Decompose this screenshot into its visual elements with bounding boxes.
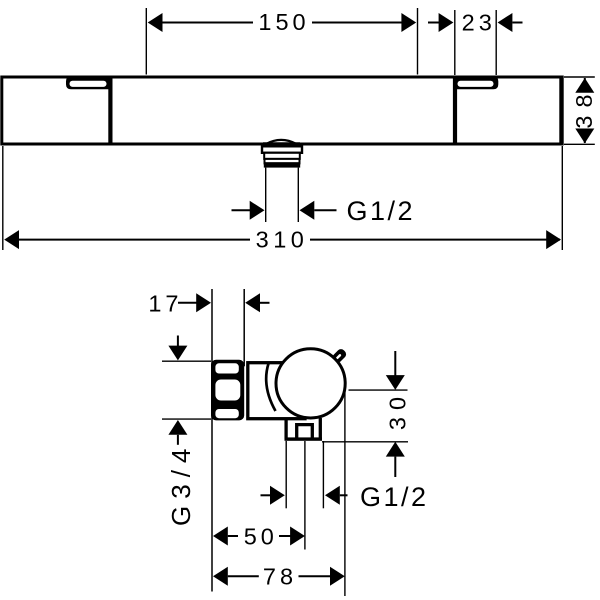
svg-text:38: 38 <box>571 86 597 128</box>
svg-text:23: 23 <box>462 10 496 36</box>
circle right extension line <box>344 391 346 597</box>
left divider line <box>108 77 112 144</box>
dimension G1/2 (side view) left arrow <box>261 486 285 505</box>
left mounting notch <box>66 76 113 89</box>
dimension 30 <box>385 351 411 477</box>
dimension 50 <box>213 524 305 550</box>
right mounting notch <box>454 76 499 89</box>
outlet fitting G1/2 under bar <box>262 146 302 167</box>
dimension 150 extension line left <box>145 8 147 75</box>
svg-text:17: 17 <box>148 291 182 317</box>
dimension 38 extension line bottom <box>564 143 595 145</box>
dimension 150 extension line right <box>417 8 419 75</box>
dimension 30 extension line bottom <box>322 441 408 443</box>
outlet right extension line <box>297 168 299 222</box>
fitting center extension line <box>304 441 306 550</box>
svg-text:310: 310 <box>256 227 309 253</box>
hose fitting G1/2 below body <box>285 418 323 441</box>
fitting right extension line <box>322 441 324 508</box>
dimension G1/2 (side view) right arrow <box>325 486 348 505</box>
bar bottom edge over dome <box>263 142 300 145</box>
svg-text:30: 30 <box>385 390 411 430</box>
dimension 23 extension line left <box>454 10 456 75</box>
dimension 23 <box>428 10 523 36</box>
dimension G3/4 extension line bottom <box>162 418 211 420</box>
dimension 30 extension line top <box>349 389 408 391</box>
svg-text:78: 78 <box>263 564 297 590</box>
thermostat handle circle <box>276 349 345 418</box>
outlet left extension line <box>265 168 267 222</box>
dimension 150 <box>148 9 417 35</box>
hex union nut G3/4 <box>211 360 244 421</box>
svg-text:G1/2: G1/2 <box>347 196 416 226</box>
svg-text:G3/4: G3/4 <box>166 442 196 526</box>
valve body <box>248 363 305 419</box>
dimension 310 extension line left <box>2 146 4 250</box>
fitting left extension line <box>285 441 287 508</box>
dimension 38 <box>571 78 597 143</box>
dimension 17 <box>148 291 269 317</box>
dimension G1/2 (top view) left arrow <box>232 201 265 220</box>
dimension 78 <box>213 564 345 590</box>
extension line A (nut left edge) <box>211 289 213 592</box>
extension line B (body left edge) <box>243 289 245 366</box>
bar right end cap <box>559 76 563 145</box>
dimension G3/4 extension line top <box>162 360 211 362</box>
mixer bar body <box>2 77 562 144</box>
knob skirt arc <box>266 364 275 412</box>
outlet dome <box>266 140 297 144</box>
svg-text:150: 150 <box>258 9 309 35</box>
dimension 38 extension line top <box>564 76 595 78</box>
dimension 310 <box>4 227 561 253</box>
dimension 310 extension line right <box>561 146 563 250</box>
safety stop tab <box>331 347 348 364</box>
svg-text:50: 50 <box>244 524 278 550</box>
dimension G3/4 <box>166 336 196 526</box>
svg-text:G1/2: G1/2 <box>360 482 429 512</box>
dimension G1/2 (top view) right arrow <box>300 201 337 220</box>
right divider line <box>453 77 457 144</box>
dimension 23 extension line right <box>495 10 497 75</box>
